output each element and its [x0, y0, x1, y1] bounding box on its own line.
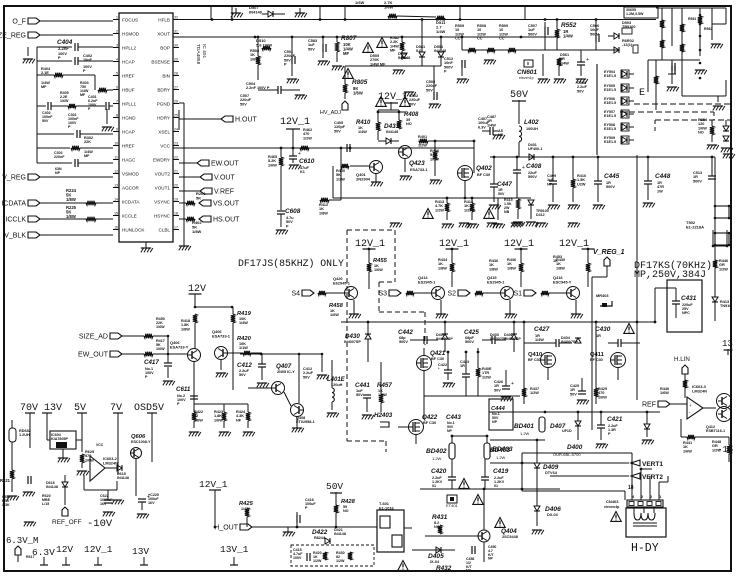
- svg-text:VSMOD: VSMOD: [122, 171, 140, 176]
- svg-text:1R: 1R: [460, 364, 465, 368]
- svg-text:CN601: CN601: [517, 69, 537, 76]
- svg-text:Q423: Q423: [409, 160, 425, 167]
- svg-text:100V: 100V: [293, 556, 302, 560]
- svg-text:TR9100: TR9100: [622, 25, 636, 29]
- svg-text:CC: CC: [455, 37, 461, 41]
- svg-text:C430: C430: [595, 326, 611, 333]
- svg-text:50V: 50V: [510, 90, 528, 101]
- svg-text:HAGC: HAGC: [122, 157, 136, 162]
- svg-text:ES2945-1: ES2945-1: [487, 279, 505, 284]
- svg-text:1/6W: 1/6W: [355, 0, 365, 5]
- svg-text:1/2W: 1/2W: [303, 136, 312, 140]
- svg-text:2N05 IC-Y: 2N05 IC-Y: [277, 370, 295, 374]
- svg-text:50V: 50V: [42, 119, 49, 123]
- svg-text:ESBT116-1: ESBT116-1: [706, 429, 725, 433]
- svg-text:VCC: VCC: [96, 443, 104, 447]
- svg-text:50V: 50V: [494, 388, 501, 392]
- svg-text:C608: C608: [285, 208, 301, 215]
- svg-text:HBUF: HBUF: [122, 87, 135, 92]
- svg-text:1/6W: 1/6W: [156, 325, 165, 329]
- svg-text:BF C30: BF C30: [477, 173, 490, 177]
- svg-text:+: +: [298, 151, 301, 157]
- svg-text:1/1W: 1/1W: [239, 346, 248, 350]
- svg-text:C417: C417: [144, 359, 159, 366]
- svg-text:CC: CC: [477, 37, 483, 41]
- svg-text:50V: 50V: [303, 375, 310, 379]
- svg-text:HUNLOCK: HUNLOCK: [122, 227, 145, 232]
- svg-text:1/8W: 1/8W: [66, 214, 76, 219]
- svg-text:IN4148: IN4148: [117, 476, 129, 480]
- svg-text:+: +: [522, 165, 525, 171]
- svg-text:6.3V_M: 6.3V_M: [6, 536, 38, 546]
- svg-text:HPLL2: HPLL2: [122, 45, 136, 50]
- svg-text:24: 24: [174, 127, 178, 131]
- svg-text:DX-04: DX-04: [547, 513, 559, 517]
- svg-text:1/6W: 1/6W: [156, 347, 165, 351]
- svg-text:1.2M,3.5W: 1.2M,3.5W: [626, 12, 644, 16]
- svg-text:1/8W: 1/8W: [181, 327, 190, 331]
- svg-text:TN916: TN916: [720, 304, 731, 308]
- svg-text:-12(1): -12(1): [622, 43, 633, 47]
- svg-text:1/6W: 1/6W: [374, 268, 383, 272]
- svg-text:HPLL1: HPLL1: [122, 101, 136, 106]
- svg-text:NP: NP: [488, 557, 494, 561]
- svg-text:6.3V: 6.3V: [32, 547, 55, 558]
- svg-text:6: 6: [116, 85, 118, 89]
- svg-text:2SC5448: 2SC5448: [502, 535, 518, 539]
- svg-text:XOUT: XOUT: [157, 31, 170, 36]
- svg-text:BIN: BIN: [162, 73, 170, 78]
- svg-text:+: +: [511, 381, 514, 387]
- svg-text:IN4148: IN4148: [249, 9, 263, 14]
- svg-text:IICCLK: IICCLK: [3, 217, 26, 224]
- svg-text:9: 9: [116, 127, 118, 131]
- svg-text:BF C30: BF C30: [590, 358, 603, 362]
- svg-text:MF: MF: [80, 93, 86, 97]
- svg-text:1/8W: 1/8W: [192, 229, 202, 234]
- svg-text:E: E: [639, 88, 645, 99]
- svg-text:eleven1p: eleven1p: [519, 76, 534, 80]
- svg-text:L402: L402: [524, 119, 539, 126]
- svg-text:1/4W: 1/4W: [436, 29, 446, 34]
- svg-text:3: 3: [116, 43, 118, 47]
- svg-text:NO: NO: [406, 122, 412, 126]
- svg-text:22: 22: [174, 155, 178, 159]
- svg-text:1/6W: 1/6W: [683, 449, 692, 453]
- svg-text:+: +: [147, 494, 150, 500]
- svg-text:1/4W: 1/4W: [535, 338, 544, 342]
- svg-text:30: 30: [174, 43, 178, 47]
- svg-text:UF1D: UF1D: [562, 429, 572, 433]
- svg-text:12V_1: 12V_1: [378, 92, 408, 103]
- svg-text:H.OUT: H.OUT: [235, 117, 258, 124]
- svg-text:12V_1: 12V_1: [199, 479, 228, 490]
- svg-text:R432: R432: [436, 565, 452, 572]
- svg-text:ESA733-1: ESA733-1: [410, 168, 428, 172]
- svg-text:ES2945-1: ES2945-1: [418, 279, 436, 284]
- svg-text:R561: R561: [688, 17, 696, 21]
- svg-text:50V: 50V: [570, 392, 577, 396]
- svg-text:V_REG_1: V_REG_1: [593, 249, 625, 256]
- svg-text:8: 8: [116, 113, 118, 117]
- svg-text:MR403: MR403: [596, 293, 609, 298]
- svg-text:R805: R805: [352, 79, 368, 86]
- svg-text:OSD5V: OSD5V: [134, 403, 164, 414]
- svg-text:MF: MF: [390, 49, 396, 53]
- svg-text:ESA733-Y: ESA733-Y: [170, 344, 189, 349]
- svg-text:IN4148: IN4148: [334, 532, 346, 536]
- svg-text:NB: NB: [504, 210, 510, 214]
- svg-text:CC: CC: [499, 37, 505, 41]
- svg-text:NO: NO: [343, 509, 349, 513]
- svg-text:C427: C427: [534, 326, 550, 333]
- svg-text:50V: 50V: [409, 102, 416, 106]
- svg-text:R457: R457: [377, 382, 392, 389]
- svg-text:EWDRY: EWDRY: [153, 157, 170, 162]
- svg-text:2N2904: 2N2904: [356, 176, 371, 181]
- svg-text:BD403: BD403: [490, 447, 510, 454]
- svg-text:VERT2: VERT2: [642, 474, 663, 481]
- svg-text:C441: C441: [355, 382, 370, 389]
- svg-text:C447: C447: [497, 181, 512, 188]
- svg-text:O_F: O_F: [12, 19, 26, 26]
- svg-text:50V: 50V: [240, 102, 247, 106]
- svg-text:Q421: Q421: [430, 350, 446, 357]
- svg-text:01: 01: [494, 484, 498, 488]
- svg-text:ESA733-1: ESA733-1: [212, 333, 231, 338]
- svg-text:E1E1.5: E1E1.5: [604, 101, 616, 105]
- svg-text:500V: 500V: [465, 340, 474, 344]
- svg-text:23: 23: [174, 141, 178, 145]
- svg-text:10nF: 10nF: [83, 58, 93, 62]
- svg-text:H.LIN: H.LIN: [674, 356, 690, 363]
- svg-text:22K: 22K: [84, 140, 91, 144]
- svg-text:500V: 500V: [606, 185, 615, 189]
- svg-text:3.3K: 3.3K: [2, 503, 10, 507]
- svg-text:1/2W: 1/2W: [418, 143, 427, 147]
- svg-text:BOP: BOP: [160, 45, 170, 50]
- svg-text:EW.OUT: EW.OUT: [211, 161, 239, 168]
- svg-text:1/6W: 1/6W: [660, 391, 669, 395]
- svg-text:S3: S3: [378, 291, 387, 298]
- svg-text:REF_OFF: REF_OFF: [52, 519, 82, 526]
- svg-text:SIZE_AD: SIZE_AD: [79, 334, 108, 341]
- svg-text:E62945-1: E62945-1: [333, 280, 351, 285]
- svg-text:IICCLE: IICCLE: [122, 213, 137, 218]
- svg-text:C611: C611: [176, 386, 191, 393]
- svg-text:1.2W: 1.2W: [432, 456, 442, 461]
- svg-text:50V: 50V: [308, 47, 315, 51]
- svg-text:2: 2: [116, 29, 118, 33]
- svg-text:ESC945-Y: ESC945-Y: [553, 279, 572, 284]
- svg-text:13V_1: 13V_1: [220, 544, 249, 555]
- svg-text:50V: 50V: [426, 88, 433, 92]
- svg-text:IC 401: IC 401: [201, 44, 207, 58]
- svg-text:E1E1.5: E1E1.5: [604, 127, 616, 131]
- svg-text:C404: C404: [57, 39, 73, 46]
- svg-text:5.6: 5.6: [416, 49, 421, 53]
- svg-text:BSENSE: BSENSE: [151, 59, 170, 64]
- svg-text:R621: R621: [0, 478, 11, 483]
- svg-text:D400: D400: [567, 444, 583, 451]
- svg-text:H-DY: H-DY: [631, 542, 659, 555]
- svg-text:EW_OUT: EW_OUT: [78, 352, 109, 359]
- svg-text:-10V: -10V: [87, 518, 113, 530]
- svg-text:120uH: 120uH: [331, 383, 343, 387]
- svg-text:H_OUT: H_OUT: [214, 525, 238, 532]
- svg-text:4: 4: [116, 57, 118, 61]
- svg-text:15: 15: [114, 211, 118, 215]
- svg-text:R807: R807: [341, 35, 357, 42]
- svg-text:UF400-1: UF400-1: [528, 147, 542, 151]
- svg-text:18: 18: [628, 485, 634, 491]
- svg-text:50V: 50V: [577, 89, 584, 93]
- svg-text:500V: 500V: [528, 32, 537, 36]
- svg-text:LM324N: LM324N: [103, 460, 118, 465]
- svg-text:E1E1.5: E1E1.5: [604, 114, 616, 118]
- svg-text:DF17JS(85KHZ) ONLY: DF17JS(85KHZ) ONLY: [238, 258, 344, 269]
- svg-text:1/4W: 1/4W: [487, 123, 496, 127]
- svg-text:1/6W: 1/6W: [330, 313, 339, 317]
- svg-text:26: 26: [174, 99, 178, 103]
- svg-text:VERT1: VERT1: [642, 461, 663, 468]
- svg-text:IN4007SP: IN4007SP: [490, 337, 507, 341]
- svg-text:32: 32: [174, 15, 178, 19]
- svg-text:1/2W: 1/2W: [530, 391, 539, 395]
- svg-text:eleven4p: eleven4p: [604, 505, 620, 509]
- svg-text:1: 1: [116, 15, 118, 19]
- svg-text:BDRY: BDRY: [157, 87, 170, 92]
- svg-text:12V_1: 12V_1: [280, 117, 310, 128]
- svg-text:AGCOR: AGCOR: [122, 185, 140, 190]
- svg-text:70V 13V: 70V 13V: [20, 403, 62, 414]
- svg-text:REF: REF: [642, 402, 656, 409]
- svg-text:1/8W: 1/8W: [556, 266, 565, 270]
- svg-text:HV_ADJ: HV_ADJ: [320, 110, 341, 116]
- svg-text:C408: C408: [526, 163, 542, 170]
- svg-text:1.2W: 1.2W: [496, 455, 506, 460]
- svg-text:31: 31: [174, 29, 178, 33]
- svg-text:MF: MF: [343, 51, 349, 56]
- svg-text:18: 18: [174, 211, 178, 215]
- svg-text:1/6W: 1/6W: [384, 4, 394, 9]
- svg-text:IN4007SP: IN4007SP: [344, 340, 361, 344]
- svg-text:11: 11: [114, 155, 118, 159]
- svg-text:Q422: Q422: [422, 414, 438, 421]
- svg-text:50V: 50V: [239, 373, 246, 377]
- svg-text:HSMOD: HSMOD: [122, 31, 140, 36]
- svg-text:Q402: Q402: [476, 165, 492, 172]
- svg-text:HCAP: HCAP: [122, 129, 135, 134]
- svg-text:VS.OUT: VS.OUT: [213, 201, 240, 208]
- svg-text:VOUT2: VOUT2: [155, 171, 171, 176]
- svg-text:1/2W: 1/2W: [313, 559, 322, 563]
- svg-text:1/2W: 1/2W: [336, 559, 345, 563]
- svg-text:NP: NP: [492, 420, 498, 424]
- svg-text:IX-04: IX-04: [430, 560, 440, 564]
- svg-text:R431: R431: [432, 514, 448, 521]
- svg-text:NP: NP: [466, 569, 472, 573]
- svg-text:500V: 500V: [590, 32, 599, 36]
- svg-text:NP: NP: [447, 429, 453, 433]
- svg-text:E1-2218A: E1-2218A: [686, 224, 704, 229]
- svg-text:Q407: Q407: [276, 363, 292, 370]
- svg-text:XSEL: XSEL: [158, 129, 170, 134]
- svg-text:S2: S2: [447, 291, 456, 298]
- svg-text:1/2W: 1/2W: [336, 177, 345, 181]
- svg-text:HDRY: HDRY: [157, 115, 170, 120]
- svg-text:1/2W: 1/2W: [719, 267, 728, 271]
- svg-text:13: 13: [114, 183, 118, 187]
- svg-text:+: +: [689, 403, 692, 408]
- svg-text:BD401: BD401: [514, 423, 534, 430]
- svg-text:50V: 50V: [356, 393, 363, 397]
- svg-text:27: 27: [174, 85, 178, 89]
- svg-text:21: 21: [174, 169, 178, 173]
- svg-text:IN4148: IN4148: [434, 49, 446, 53]
- svg-text:29: 29: [174, 57, 178, 61]
- svg-text:L/15: L/15: [42, 502, 49, 506]
- svg-text:D405: D405: [428, 553, 444, 560]
- svg-text:NPC: NPC: [682, 311, 690, 315]
- svg-text:12V: 12V: [56, 544, 73, 555]
- svg-text:16V: 16V: [148, 501, 155, 505]
- svg-text:S4: S4: [291, 291, 300, 298]
- svg-text:V_REG: V_REG: [2, 175, 26, 182]
- svg-text:TDA4858: TDA4858: [195, 44, 201, 65]
- svg-text:MF: MF: [84, 154, 90, 158]
- svg-text:U2W: U2W: [577, 182, 586, 186]
- svg-text:VSYNC: VSYNC: [154, 199, 171, 204]
- svg-text:1/4W: 1/4W: [358, 130, 367, 134]
- svg-text:NO: NO: [698, 131, 704, 135]
- svg-text:5K: 5K: [196, 195, 201, 200]
- svg-text:C425: C425: [464, 329, 479, 336]
- svg-text:IICDATA: IICDATA: [122, 199, 140, 204]
- svg-text:E1E1.5: E1E1.5: [604, 74, 616, 78]
- svg-text:1/2W: 1/2W: [435, 208, 444, 212]
- svg-text:1W: 1W: [657, 189, 663, 193]
- svg-text:HCAP: HCAP: [122, 59, 135, 64]
- svg-text:S1: S1: [513, 291, 522, 298]
- svg-text:C419: C419: [493, 468, 509, 475]
- svg-text:6.3V: 6.3V: [478, 125, 486, 129]
- svg-text:KIA7805P: KIA7805P: [51, 437, 69, 441]
- svg-text:K1: K1: [300, 170, 305, 174]
- svg-text:FOCUS: FOCUS: [122, 17, 138, 22]
- svg-text:VOUT1: VOUT1: [155, 185, 171, 190]
- svg-text:1/6W: 1/6W: [60, 99, 69, 103]
- svg-text:MP,250V,384J: MP,250V,384J: [634, 270, 706, 281]
- svg-text:C448: C448: [655, 173, 671, 180]
- svg-text:HFLB: HFLB: [158, 17, 170, 22]
- svg-text:C412: C412: [237, 362, 252, 369]
- svg-text:1/8W: 1/8W: [438, 266, 447, 270]
- svg-text:1.2UH: 1.2UH: [19, 433, 30, 437]
- svg-text:1/6W: 1/6W: [353, 91, 363, 96]
- svg-text:500V: 500V: [528, 175, 537, 179]
- svg-text:HGND: HGND: [122, 115, 136, 120]
- svg-text:16: 16: [114, 225, 118, 229]
- svg-text:D422: D422: [312, 529, 328, 536]
- svg-text:ET401: ET401: [446, 503, 459, 508]
- svg-text:1.2W: 1.2W: [520, 431, 530, 436]
- svg-text:-16: -16: [717, 445, 733, 455]
- svg-text:+: +: [586, 57, 589, 63]
- svg-text:C610: C610: [299, 158, 315, 165]
- svg-text:CN403: CN403: [606, 499, 619, 504]
- svg-text:5V: 5V: [74, 403, 86, 414]
- svg-text:1/8W: 1/8W: [319, 211, 328, 215]
- svg-text:50V: 50V: [498, 192, 505, 196]
- svg-text:01: 01: [432, 484, 436, 488]
- svg-text:D406: D406: [545, 506, 561, 513]
- svg-text:1R: 1R: [596, 334, 601, 338]
- svg-text:ESC1008-Y: ESC1008-Y: [131, 440, 151, 444]
- svg-text:1/4W: 1/4W: [239, 321, 248, 325]
- svg-text:PGND: PGND: [157, 101, 171, 106]
- svg-text:5: 5: [116, 71, 118, 75]
- svg-text:220nF: 220nF: [54, 155, 65, 159]
- svg-text:1/8W: 1/8W: [66, 197, 76, 202]
- svg-text:R552: R552: [561, 22, 577, 29]
- svg-text:12V_1: 12V_1: [559, 239, 589, 250]
- svg-text:12V_1: 12V_1: [84, 544, 113, 555]
- svg-text:100UH: 100UH: [526, 127, 538, 131]
- svg-text:E1E1.5: E1E1.5: [604, 88, 616, 92]
- svg-text:ET02958-1: ET02958-1: [296, 420, 315, 424]
- svg-text:12V: 12V: [188, 284, 206, 295]
- svg-text:500V: 500V: [399, 340, 408, 344]
- svg-text:20: 20: [174, 183, 178, 187]
- svg-text:R562: R562: [704, 27, 712, 31]
- svg-text:50V: 50V: [326, 481, 343, 492]
- svg-text:H2403: H2403: [374, 412, 393, 419]
- svg-text:C420: C420: [431, 468, 447, 475]
- svg-text:IN4148: IN4148: [46, 485, 58, 489]
- svg-text:C445: C445: [604, 173, 620, 180]
- svg-text:7V: 7V: [110, 403, 122, 414]
- svg-text:12V_1: 12V_1: [439, 239, 469, 250]
- svg-text:D409: D409: [543, 464, 559, 471]
- svg-text:C442: C442: [398, 329, 413, 336]
- svg-text:1/6W: 1/6W: [268, 163, 277, 167]
- svg-text:12: 12: [114, 169, 118, 173]
- svg-text:V_BLK: V_BLK: [4, 233, 26, 240]
- svg-text:C443: C443: [446, 414, 461, 421]
- svg-text:R8244: R8244: [314, 536, 326, 540]
- svg-text:25: 25: [174, 113, 178, 117]
- svg-text:Q404: Q404: [501, 528, 517, 535]
- svg-text:19: 19: [174, 197, 178, 201]
- svg-text:NP: NP: [55, 171, 61, 175]
- svg-text:BF C30: BF C30: [423, 421, 436, 425]
- svg-text:HS.OUT: HS.OUT: [213, 217, 240, 224]
- svg-text:NF: NF: [498, 133, 504, 137]
- svg-text:BD402: BD402: [426, 448, 447, 455]
- svg-text:HREF: HREF: [122, 143, 135, 148]
- svg-text:V.OUT: V.OUT: [214, 175, 235, 182]
- svg-text:VCC: VCC: [160, 143, 170, 148]
- svg-text:ZE_REG: ZE_REG: [0, 33, 26, 40]
- svg-text:IN4148: IN4148: [398, 56, 410, 60]
- svg-text:1/2W: 1/2W: [482, 375, 491, 379]
- svg-text:D412: D412: [536, 213, 545, 217]
- svg-text:12V_1: 12V_1: [504, 239, 534, 250]
- svg-text:MF: MF: [41, 85, 47, 89]
- svg-text:50V: 50V: [334, 129, 341, 133]
- svg-text:HREF: HREF: [122, 73, 135, 78]
